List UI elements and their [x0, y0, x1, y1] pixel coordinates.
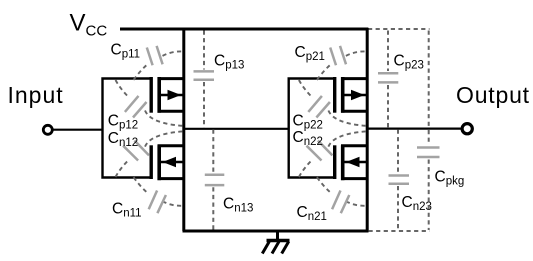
capacitor Cp23: [378, 73, 398, 82]
wire VCC dashed extension: [368, 28, 430, 30]
transistor Mn1 drain line: [158, 144, 186, 147]
transistor Mn1 source line: [158, 177, 186, 180]
wire drain rail stage 2: [366, 28, 369, 231]
transistor Mp1 gate bar: [149, 77, 152, 113]
capacitor Cn11: [149, 191, 166, 214]
ground symbol: [262, 231, 289, 254]
capacitor Cp12: [125, 96, 147, 118]
wire interstage node: [184, 128, 290, 130]
transistor Mn1 gate bar: [149, 145, 152, 179]
transistor Mp1 drain line: [158, 110, 186, 113]
capacitor Cpkg: [417, 148, 440, 158]
capacitor Cp13: [194, 71, 215, 79]
wire ground dashed extension: [369, 230, 430, 232]
capacitor Cp22: [308, 96, 330, 118]
capacitor Cn23: [389, 176, 410, 184]
capacitor Cp21: [330, 46, 346, 65]
transistor Mn1 channel bar: [157, 145, 161, 180]
transistor Mp1 body line: [161, 94, 185, 97]
transistor Mp2 channel bar: [341, 77, 345, 113]
capacitor Cp11: [147, 46, 163, 65]
dashed arc Cp21: [317, 51, 367, 80]
transistor Mp2 body line: [344, 94, 368, 97]
transistor Mp2 gate bar: [333, 77, 336, 113]
dashed branch Cn23: [397, 130, 399, 174]
transistor Mn2 body line: [344, 161, 368, 164]
transistor Mp2 drain line: [341, 110, 369, 113]
transistor Mp1 channel bar: [157, 77, 161, 113]
transistor Mp2 arrow: [351, 90, 365, 100]
dashed arc Cp12: [116, 80, 184, 126]
dashed arc Cn11: [134, 177, 184, 206]
transistor Mp1 arrow: [168, 90, 182, 100]
wire VCC rail: [120, 28, 368, 31]
dashed arc Cn22: [299, 131, 367, 177]
dashed branch Cn13: [212, 130, 214, 173]
wire input: [53, 129, 104, 131]
wire output: [367, 128, 461, 130]
svg-text:Input: Input: [8, 82, 64, 108]
terminal output: [462, 124, 472, 134]
transistor Mp2 source line: [341, 77, 369, 80]
dashed arc Cn12: [116, 131, 184, 177]
terminal input: [43, 125, 52, 134]
wire gate box stage 2: [289, 79, 335, 178]
dashed branch Cp23: [387, 31, 389, 72]
dashed branch Cpkg: [428, 31, 430, 128]
transistor Mp1 source line: [158, 77, 186, 80]
transistor Mn2 gate bar: [333, 145, 336, 179]
wire drain rail stage 1: [182, 28, 185, 231]
dashed arc Cp22: [299, 80, 367, 126]
transistor Mn2 drain line: [341, 144, 369, 147]
capacitor Cn22: [307, 141, 333, 161]
dashed arc Cn21: [317, 177, 367, 206]
wire ground rail: [183, 230, 369, 233]
wire gate box stage 1: [103, 79, 152, 178]
dashed arc Cp11: [134, 51, 184, 80]
transistor Mn1 arrow: [163, 157, 177, 167]
capacitor Cn21: [332, 191, 349, 214]
transistor Mn1 body line: [161, 161, 185, 164]
svg-text:Output: Output: [456, 82, 530, 108]
capacitor Cn12: [123, 141, 149, 161]
transistor Mn2 channel bar: [341, 145, 345, 180]
capacitor Cn13: [205, 175, 225, 185]
transistor Mn2 arrow: [346, 157, 360, 167]
transistor Mn2 source line: [341, 177, 369, 180]
dashed branch Cp13: [203, 31, 205, 70]
